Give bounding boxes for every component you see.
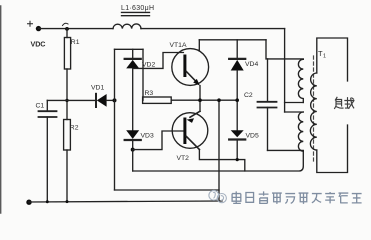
transformer core: [313, 56, 315, 161]
node emitter-VD junction: [235, 98, 239, 102]
diode VD2: [125, 49, 141, 130]
wire emitter column: [199, 86, 201, 112]
node emitter node: [198, 98, 202, 102]
char 4: [272, 193, 282, 204]
resistor R1: [64, 29, 70, 101]
char 5: [285, 194, 295, 204]
node R divider junction: [65, 99, 68, 102]
wire load bottom: [317, 125, 348, 173]
svg-text:R2: R2: [70, 125, 79, 132]
svg-text:L1·630μH: L1·630μH: [121, 5, 154, 12]
resistor R2: [64, 100, 71, 201]
wire R3 feed drop: [142, 49, 144, 100]
transformer T1 secondary winding: [310, 73, 316, 150]
char 3: [259, 191, 269, 203]
wire emitter return drop: [218, 100, 220, 201]
svg-text:VD4: VD4: [245, 61, 258, 68]
svg-text:VD2: VD2: [142, 62, 155, 69]
svg-text:VT2: VT2: [177, 155, 190, 162]
wire center-tap stub upper: [285, 102, 304, 104]
transistor VT2: [172, 111, 208, 149]
wire top rail right: [141, 28, 285, 30]
diode VD1: [96, 94, 115, 107]
wire center-tap stub lower: [285, 111, 304, 113]
char 7: [312, 194, 322, 203]
wire negative branch left vertical: [114, 49, 116, 190]
resistor R3: [143, 97, 237, 103]
wire VT2 collector run: [199, 150, 244, 172]
node VD1 anode junction: [113, 98, 117, 102]
char 9: [338, 193, 348, 203]
wire center-tap feed drop: [284, 29, 286, 112]
wire load top: [317, 38, 348, 81]
svg-text:C1: C1: [36, 103, 45, 110]
wire VT2 base link: [133, 131, 184, 150]
node + terminal (VDC positive): [28, 21, 42, 31]
wire outer negative rail: [29, 201, 222, 202]
watermark marks: [209, 190, 226, 202]
wire divider node row: [47, 99, 95, 101]
transformer T1 primary upper winding: [298, 59, 303, 102]
node VD3 foot junction: [131, 148, 135, 152]
wire top rail left: [39, 28, 114, 30]
svg-text:VD5: VD5: [246, 133, 259, 140]
label load: [335, 97, 354, 108]
wire VD3 to bottom rail: [132, 150, 134, 171]
left page edge: [0, 6, 2, 213]
char 2: [246, 192, 254, 202]
diode VD3: [125, 130, 141, 149]
inductor L1: [113, 12, 150, 28]
wire bias top run: [115, 48, 144, 50]
char 1: [232, 191, 241, 203]
wire bottom rail: [133, 151, 304, 171]
wire VT1 base link: [133, 53, 184, 69]
transformer T1 primary lower winding: [298, 112, 303, 151]
svg-text:VD1: VD1: [91, 85, 104, 92]
watermark text workshop: [232, 191, 362, 204]
svg-text:VD3: VD3: [141, 133, 154, 140]
transistor VT1: [172, 40, 209, 86]
diode VD5: [229, 130, 245, 159]
svg-text:VT1A: VT1A: [170, 42, 187, 49]
diode VD4: [229, 40, 245, 130]
svg-text:C2: C2: [244, 92, 253, 99]
capacitor C1: [39, 100, 57, 201]
wire collector rail: [199, 39, 266, 41]
node negative terminal: [26, 200, 31, 205]
char 10: [352, 194, 362, 203]
capacitor C2: [258, 59, 304, 150]
svg-text:R3: R3: [145, 90, 154, 97]
wire inner negative return: [115, 189, 220, 191]
char 8: [325, 192, 335, 203]
char 6: [299, 193, 309, 204]
svg-text:VDC: VDC: [31, 39, 46, 48]
svg-text:R1: R1: [71, 39, 80, 46]
svg-text:1: 1: [323, 54, 326, 60]
node a tick: [63, 23, 69, 25]
wire collector rail drop: [266, 40, 303, 59]
